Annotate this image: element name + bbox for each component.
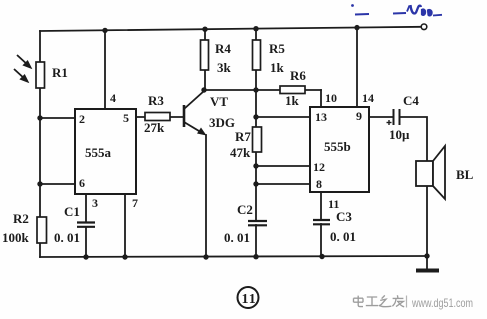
capacitor C3 [313,220,330,224]
capacitor C1 [77,223,95,227]
svg-text:R4: R4 [215,41,231,56]
svg-text:13: 13 [315,110,327,124]
svg-text:0. 01: 0. 01 [224,230,250,245]
wire left rail [39,31,41,257]
svg-text:12: 12 [313,160,325,174]
svg-text:C3: C3 [336,209,352,224]
svg-text:www.dg51.com: www.dg51.com [411,296,473,310]
resistor R1 (photoresistor body) [36,62,45,88]
svg-text:14: 14 [362,91,374,105]
wire collector node horizontal [204,89,321,91]
op-amp U2 555b box [310,107,369,192]
capacitor C4 (electrolytic) [387,109,400,125]
wire pin14 stub [356,28,358,108]
figure number 11 circled [238,287,259,308]
wire C4 to speaker [400,117,427,161]
svg-text:10: 10 [325,91,337,105]
resistor R3 [145,113,170,121]
ground [416,256,439,271]
svg-text:R1: R1 [52,65,68,80]
svg-text:7: 7 [132,196,138,210]
svg-text:4: 4 [110,91,116,105]
svg-text:555b: 555b [324,139,351,154]
wire pin13 [256,116,310,118]
wire pin8 [256,183,310,185]
wire pin9 to C4 [369,116,392,118]
resistor R7 [253,127,262,152]
svg-text:555a: 555a [85,145,112,160]
resistor R5 [253,40,261,70]
char gong [366,297,378,306]
wire pin10 stub [320,90,322,107]
svg-text:5: 5 [123,111,129,125]
op-amp U1 555a box [75,109,136,194]
wire pin3 to C1 [85,194,87,222]
svg-text:3: 3 [92,196,98,210]
wire pin4 stub [104,30,106,109]
svg-text:9: 9 [356,109,362,123]
wire pin12 [256,165,310,167]
svg-text:11: 11 [328,197,339,211]
svg-text:1k: 1k [270,60,285,75]
speaker BL [416,161,433,186]
svg-text:2: 2 [79,112,85,126]
svg-text:0. 01: 0. 01 [330,229,356,244]
wire emitter vertical [205,135,207,257]
wire pin5 to base [136,116,184,118]
char zhi [379,295,392,306]
wire top rail VDD [40,27,421,31]
wire C1 to rail [85,227,87,257]
footer divider [406,296,408,308]
char dian [354,296,364,307]
svg-text:3DG: 3DG [209,115,235,130]
svg-text:R3: R3 [148,93,164,108]
wire pin2 [40,117,75,119]
char you [392,295,404,307]
wire bottom rail [40,256,427,257]
capacitor C2 [248,221,267,225]
resistor R4 [201,40,209,70]
resistor R2 [37,217,47,243]
svg-text:R6: R6 [290,68,306,83]
wire pin11 to C3 [320,192,322,220]
svg-text:C4: C4 [403,93,419,108]
wire pin7 [124,194,126,257]
wire R4 vertical [204,29,206,90]
svg-text:VT: VT [210,94,228,109]
wire pin6 [40,183,75,185]
wire C3 to rail [320,224,322,257]
footer watermark dianGong zhiYou (drawn strokes) [354,295,405,307]
svg-text:C1: C1 [64,204,80,219]
svg-text:47k: 47k [230,145,251,160]
terminal VDD circle [421,24,427,30]
wire speaker to rail [426,186,428,256]
svg-text:R5: R5 [269,41,285,56]
svg-text:0. 01: 0. 01 [54,230,80,245]
svg-text:6: 6 [79,176,85,190]
node VDD blue annotation [351,4,442,16]
svg-text:11: 11 [242,292,257,307]
resistor R1 light arrows [14,55,31,82]
svg-text:100k: 100k [2,230,30,245]
svg-text:BL: BL [456,167,474,182]
svg-text:R2: R2 [13,211,29,226]
wire R5-R7-C2 vertical [255,29,257,221]
resistor R6 [280,86,305,94]
wire C2 to rail [255,225,257,257]
svg-text:1k: 1k [285,93,300,108]
svg-text:8: 8 [316,177,322,191]
svg-text:27k: 27k [144,120,165,135]
transistor Q1 VT [184,91,207,136]
svg-text:C2: C2 [237,202,253,217]
svg-text:R7: R7 [235,129,251,144]
svg-text:3k: 3k [217,60,232,75]
svg-text:10μ: 10μ [389,127,410,142]
